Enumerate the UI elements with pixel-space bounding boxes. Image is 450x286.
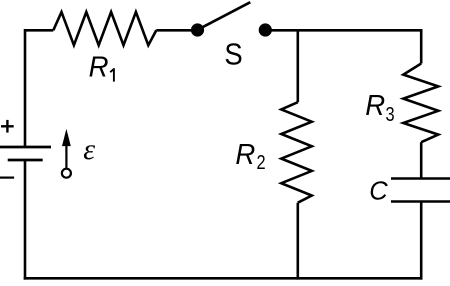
wire: left branch vertical from battery negative plate down to bottom-left corner <box>24 160 27 280</box>
svg-text:R: R <box>235 137 255 170</box>
wire: bottom horizontal return wire <box>24 277 423 280</box>
label R3 <box>365 88 385 121</box>
svg-text:2: 2 <box>257 150 266 173</box>
svg-text:R: R <box>365 88 385 121</box>
label R2 <box>235 137 255 170</box>
EMF direction arrow tail open circle <box>62 169 71 178</box>
battery polarity label + <box>1 120 14 133</box>
EMF direction arrow head <box>62 129 71 146</box>
label R1 <box>89 50 109 83</box>
wire: right branch from resistor R3 down to capacitor C top plate <box>420 142 423 178</box>
svg-text:S: S <box>224 38 242 72</box>
battery EMF source: short negative plate <box>8 159 43 162</box>
wire: right branch from capacitor C bottom plate down to bottom-right corner <box>420 202 423 280</box>
svg-text:ε: ε <box>83 133 95 166</box>
svg-text:3: 3 <box>386 102 395 125</box>
resistor R1 <box>53 12 156 45</box>
wire: from battery positive plate up and right to resistor R1 (top-left corner) <box>25 30 53 147</box>
battery polarity label minus <box>0 177 14 179</box>
wire: middle branch vertical from top wire down to resistor R2 <box>296 30 299 102</box>
switch S right contact dot <box>259 23 272 36</box>
EMF direction arrow shaft <box>65 142 67 169</box>
battery EMF source: long positive plate <box>0 146 51 149</box>
wire: from resistor R1 to switch S left contact <box>156 29 197 32</box>
capacitor C top plate <box>391 177 450 180</box>
resistor R3 <box>403 64 438 143</box>
label C <box>369 178 388 206</box>
wire: top horizontal from switch S right contact to top-right corner, down to resistor R3 <box>265 30 421 63</box>
resistor R2 <box>281 102 312 203</box>
svg-text:C: C <box>369 178 388 206</box>
wire: middle branch vertical from resistor R2 down to bottom wire <box>296 203 299 280</box>
label S <box>224 38 242 72</box>
switch S lever (open) <box>198 2 251 30</box>
svg-text:R: R <box>89 50 109 83</box>
capacitor C bottom plate <box>391 200 450 203</box>
switch S left contact dot <box>191 23 204 36</box>
label epsilon (EMF) <box>83 133 95 166</box>
